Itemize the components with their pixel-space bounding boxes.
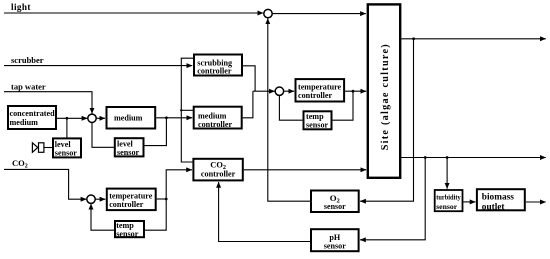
- box medium controller: [194, 107, 242, 129]
- wire bus branch to medium controller: [181, 109, 193, 111]
- svg-text:light: light: [11, 2, 31, 12]
- wire feed to turbidity sensor: [446, 158, 448, 189]
- wire temp sensor TS1 feedback to node J3: [91, 204, 114, 230]
- svg-text:CO2: CO2: [12, 158, 28, 170]
- wire valve link to level sensor LS1: [44, 147, 52, 149]
- box temperature controller T2: [296, 79, 345, 101]
- wire CO2 supply line: [4, 169, 86, 199]
- box concentrated medium: [8, 106, 56, 129]
- svg-text:turbidity: turbidity: [436, 195, 461, 202]
- wire node J2 to temperature controller T2: [284, 90, 295, 92]
- wire Site biomass output: [401, 157, 545, 159]
- box turbidity sensor: [435, 190, 463, 211]
- box pH sensor: [311, 229, 359, 251]
- wire biomass outlet output: [526, 201, 546, 203]
- valve symbol: [32, 143, 44, 153]
- wire temperature controller T1 output: [157, 198, 167, 200]
- wire concentrated medium to node J4: [57, 117, 87, 119]
- wire node J2 feedback loop to temp sensor TS2: [279, 95, 302, 120]
- svg-text:sensor: sensor: [436, 204, 457, 211]
- box temperature controller T1: [107, 189, 156, 211]
- box biomass outlet: [477, 189, 525, 210]
- box level sensor LS2: [115, 138, 144, 156]
- box O2 sensor: [311, 191, 359, 213]
- box level sensor LS1: [53, 138, 81, 157]
- wire feed to pH sensor: [360, 158, 425, 240]
- svg-text:scrubbingcontroller: scrubbingcontroller: [197, 58, 232, 75]
- wire drop to level sensor LS1: [66, 118, 68, 137]
- wire medium to medium controller: [156, 117, 192, 119]
- box Site (algae culture): [368, 4, 400, 177]
- wire medium controller output: [243, 91, 253, 118]
- wire tap water supply line: [4, 92, 92, 114]
- wire temperature controller T2 to Site: [345, 90, 366, 92]
- box temp sensor TS1: [115, 221, 144, 237]
- wire controller bus vertical: [181, 58, 193, 162]
- svg-text:medium: medium: [114, 114, 143, 123]
- wire turbidity sensor to biomass outlet: [463, 201, 475, 203]
- box CO2 controller: [193, 159, 242, 181]
- wire level sensor LS2 link: [144, 118, 166, 146]
- wire node J3 to temperature controller T1: [95, 198, 105, 200]
- node J2 mixer circle: [275, 87, 283, 95]
- wire CO2 controller to Site: [244, 169, 366, 171]
- wire O2 sensor feedback to node J1: [268, 18, 310, 201]
- wire temp sensor TS1 output to CO2 controller: [145, 170, 192, 230]
- box temp sensor TS2: [304, 111, 332, 129]
- wire node J1 to Site: [272, 13, 366, 15]
- wire temp sensor TS2 output join: [333, 91, 354, 120]
- wire light supply line: [4, 12, 263, 14]
- wire to node J2: [253, 90, 275, 92]
- node J3 mixer circle: [87, 195, 95, 203]
- wire node J4 feedback from level sensor LS2: [92, 123, 114, 148]
- wire Site top output: [401, 38, 545, 40]
- wire node J4 to medium: [96, 117, 105, 119]
- wire scrubbing controller output: [243, 66, 255, 91]
- box scrubbing controller: [194, 55, 242, 76]
- wire feed to O2 sensor: [360, 39, 413, 201]
- node J1 mixer circle: [264, 9, 272, 17]
- svg-text:tap water: tap water: [11, 82, 46, 92]
- wire scrubber supply line: [4, 65, 192, 67]
- node J4 mixer circle: [88, 114, 96, 122]
- svg-text:scrubber: scrubber: [11, 55, 44, 65]
- wire pH sensor to CO2 controller: [219, 182, 310, 242]
- box medium: [107, 107, 156, 129]
